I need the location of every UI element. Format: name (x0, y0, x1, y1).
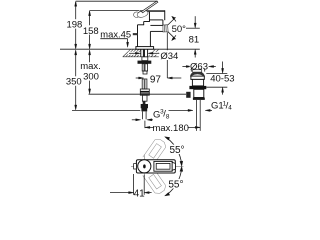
dimension 55 degree arc lower (165, 166, 183, 196)
base flange (136, 47, 154, 50)
svg-text:max.45: max.45 (100, 28, 131, 39)
dimension 158 vertical (89, 11, 91, 49)
extension line hose end 350 level (72, 109, 140, 111)
svg-text:50°: 50° (172, 24, 187, 35)
dimension max.45 leader (100, 39, 128, 48)
extension line top 198 (76, 0, 157, 2)
counter section hatching (123, 49, 159, 57)
hose coupling at max.300 level (140, 89, 149, 95)
label 40-53 (210, 74, 235, 81)
svg-text:81: 81 (189, 34, 200, 45)
drain locknut (189, 86, 206, 89)
label 55deg lower (169, 179, 184, 188)
dimension G1 1/4 thread (169, 109, 213, 111)
svg-text:158: 158 (83, 26, 99, 37)
drain neck (192, 79, 203, 86)
hose lines below fitting (142, 111, 146, 119)
dimension 41 (110, 174, 152, 195)
svg-text:300: 300 (83, 71, 99, 82)
label 55deg upper (169, 145, 184, 154)
drain plug dome band (190, 72, 204, 76)
dimension 50 degree arc (168, 16, 176, 40)
dimension 81 vertical (186, 16, 200, 57)
svg-text:97: 97 (150, 75, 162, 86)
G3/8 fitting body (141, 95, 148, 111)
washer and nut below counter (138, 57, 152, 64)
extension line top 158 (90, 9, 139, 11)
drain lower body (194, 89, 204, 97)
top view ghost body rotated +55 (135, 137, 167, 175)
dimension 97 (136, 32, 182, 79)
dimension max.180 (145, 121, 200, 129)
dimension Ø34 (128, 52, 159, 55)
top view main body (136, 160, 175, 173)
label Ø63 (190, 62, 208, 69)
svg-text:8: 8 (166, 113, 170, 120)
svg-text:40-53: 40-53 (210, 73, 234, 84)
svg-text:41: 41 (134, 189, 146, 200)
label 97 (149, 74, 161, 84)
svg-text:55°: 55° (168, 179, 183, 190)
svg-text:Ø63: Ø63 (190, 62, 208, 73)
threaded stud below nut (142, 64, 147, 74)
dimension 350 vertical (75, 50, 77, 110)
dimension Ø63 (182, 65, 215, 71)
svg-text:55°: 55° (169, 145, 184, 156)
top view: centerline horizontal (131, 165, 183, 167)
dimension 40-53 (206, 62, 227, 95)
dimension 55 degree arc upper (165, 137, 183, 167)
svg-text:4: 4 (228, 104, 232, 111)
svg-text:Ø34: Ø34 (160, 51, 178, 62)
dimension G3/8 hose (132, 119, 153, 121)
drain tailpipe (196, 100, 200, 131)
label max.180 (154, 124, 188, 132)
drain flange cylinder (191, 76, 204, 79)
pop-up rod knob on body (133, 33, 138, 35)
svg-text:350: 350 (66, 76, 82, 87)
pop-up rod / hose segment (142, 79, 147, 89)
drain pop-up plug knob (193, 70, 202, 73)
drain thread band (193, 98, 205, 100)
label Ø34 (160, 51, 178, 60)
dimension max.300 vertical (89, 50, 91, 94)
pop-up linkage rod max.300 level (89, 93, 187, 95)
drain lever clevis (186, 92, 190, 98)
faucet body front view (138, 10, 165, 46)
counter top line (60, 48, 200, 50)
svg-text:max.180: max.180 (152, 123, 188, 134)
top view: centerline vertical (143, 155, 145, 178)
spout aerator (163, 25, 168, 32)
handle cap (134, 9, 149, 18)
mounting shank through counter (141, 49, 148, 57)
top view rod knob (134, 164, 137, 169)
handle lever (142, 1, 158, 13)
svg-text:198: 198 (66, 19, 82, 30)
dimension 198 vertical (75, 1, 77, 49)
top view ghost body rotated -55 (135, 157, 167, 195)
